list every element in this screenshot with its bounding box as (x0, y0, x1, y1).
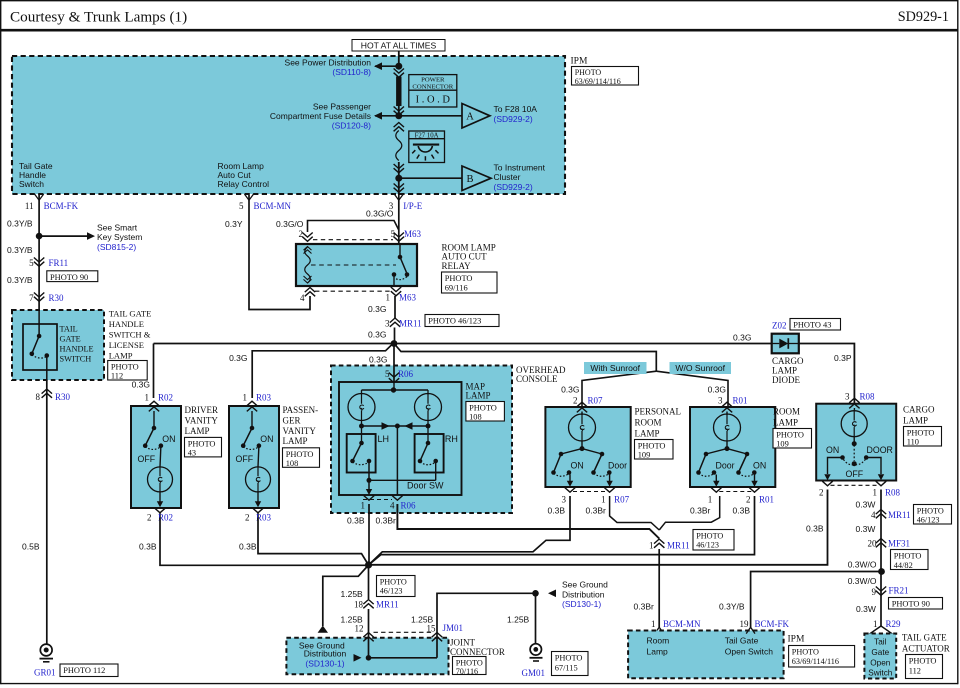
svg-text:GM01: GM01 (522, 668, 546, 678)
svg-text:PHOTO: PHOTO (907, 429, 935, 438)
svg-text:PHOTO: PHOTO (696, 531, 723, 540)
svg-text:LAMP: LAMP (903, 416, 928, 426)
svg-text:CONSOLE: CONSOLE (516, 374, 558, 384)
svg-text:1: 1 (649, 540, 654, 550)
svg-text:109: 109 (638, 451, 651, 460)
svg-text:1: 1 (145, 392, 150, 402)
svg-text:70/116: 70/116 (456, 667, 478, 676)
svg-text:1.25B: 1.25B (507, 615, 530, 625)
svg-text:R30: R30 (49, 293, 65, 303)
svg-text:2: 2 (147, 513, 152, 523)
svg-text:43: 43 (188, 449, 196, 458)
svg-text:LAMP: LAMP (283, 436, 308, 446)
svg-text:R08: R08 (860, 392, 876, 402)
svg-text:0.3G: 0.3G (229, 353, 247, 363)
svg-text:LAMP: LAMP (185, 426, 210, 436)
svg-text:PHOTO: PHOTO (792, 647, 819, 656)
svg-text:SWITCH: SWITCH (60, 355, 92, 364)
svg-text:0.3Br: 0.3Br (586, 506, 606, 516)
svg-text:R30: R30 (55, 392, 71, 402)
svg-text:R02: R02 (158, 392, 173, 402)
svg-text:PHOTO: PHOTO (469, 404, 497, 413)
svg-text:PHOTO 90: PHOTO 90 (892, 600, 930, 609)
svg-text:1: 1 (651, 619, 656, 629)
svg-text:R03: R03 (256, 392, 272, 402)
svg-text:TAIL GATE: TAIL GATE (902, 633, 947, 643)
svg-text:0.3B: 0.3B (239, 542, 257, 552)
svg-text:0.3G: 0.3G (368, 329, 386, 339)
svg-text:CONNECTOR: CONNECTOR (450, 647, 505, 657)
svg-text:BCM-MN: BCM-MN (254, 201, 292, 211)
svg-text:LICENSE: LICENSE (109, 340, 144, 350)
svg-text:(SD130-1): (SD130-1) (305, 658, 344, 668)
svg-text:0.3G: 0.3G (132, 379, 150, 389)
svg-text:3: 3 (562, 495, 567, 505)
svg-text:SWITCH &: SWITCH & (109, 330, 151, 340)
svg-text:M63: M63 (399, 293, 417, 303)
svg-text:Distribution: Distribution (304, 649, 347, 659)
svg-text:46/123: 46/123 (380, 587, 403, 596)
svg-text:See Ground: See Ground (562, 580, 608, 590)
svg-text:0.3W: 0.3W (856, 604, 876, 614)
svg-text:PHOTO: PHOTO (909, 657, 937, 666)
svg-text:To F28 10A: To F28 10A (494, 104, 538, 114)
svg-text:67/115: 67/115 (555, 664, 578, 673)
svg-text:MF31: MF31 (888, 538, 910, 548)
svg-text:TAIL GATE: TAIL GATE (109, 309, 152, 319)
svg-text:PHOTO: PHOTO (555, 654, 583, 663)
svg-text:Switch: Switch (19, 179, 44, 189)
svg-text:Gate: Gate (871, 648, 889, 657)
svg-text:MR11: MR11 (399, 318, 422, 328)
svg-text:63/69/114/116: 63/69/114/116 (575, 77, 621, 86)
svg-text:See Power Distribution: See Power Distribution (285, 58, 372, 68)
svg-text:19: 19 (740, 619, 750, 629)
svg-text:20: 20 (868, 538, 878, 548)
svg-text:ACTUATOR: ACTUATOR (902, 644, 950, 654)
svg-text:PHOTO: PHOTO (188, 440, 216, 449)
svg-text:3: 3 (845, 392, 850, 402)
svg-text:1: 1 (386, 293, 391, 303)
svg-text:DIODE: DIODE (772, 375, 800, 385)
svg-text:4: 4 (390, 500, 395, 510)
svg-text:Key System: Key System (97, 232, 142, 242)
svg-text:1.25B: 1.25B (341, 589, 364, 599)
svg-text:0.3Y/B: 0.3Y/B (7, 275, 33, 285)
svg-text:Room: Room (647, 636, 670, 646)
svg-text:LAMP: LAMP (773, 418, 798, 428)
svg-text:MR11: MR11 (667, 540, 690, 550)
svg-text:BCM-FK: BCM-FK (755, 619, 790, 629)
svg-text:4: 4 (871, 510, 876, 520)
svg-text:LH: LH (378, 434, 390, 444)
svg-text:M63: M63 (404, 229, 422, 239)
svg-text:112: 112 (909, 667, 921, 676)
svg-text:46/123: 46/123 (696, 541, 719, 550)
svg-text:Open Switch: Open Switch (725, 647, 773, 657)
svg-text:See Passenger: See Passenger (313, 101, 371, 111)
svg-text:8: 8 (36, 392, 41, 402)
svg-text:9: 9 (872, 587, 877, 597)
svg-text:Z02: Z02 (772, 320, 787, 330)
svg-text:R01: R01 (733, 395, 748, 405)
svg-text:3: 3 (718, 395, 723, 405)
svg-text:R07: R07 (614, 495, 630, 505)
svg-text:PHOTO: PHOTO (894, 552, 922, 561)
svg-text:VANITY: VANITY (185, 415, 219, 425)
svg-text:W/O Sunroof: W/O Sunroof (675, 363, 725, 373)
svg-text:PHOTO 43: PHOTO 43 (793, 321, 831, 330)
svg-text:R07: R07 (588, 395, 604, 405)
svg-text:LAMP: LAMP (635, 429, 660, 439)
svg-text:GR01: GR01 (34, 667, 56, 677)
svg-text:0.3Br: 0.3Br (634, 602, 654, 612)
svg-text:ON: ON (162, 434, 175, 444)
svg-text:0.3Y/B: 0.3Y/B (7, 219, 33, 229)
svg-text:B: B (466, 174, 473, 185)
svg-text:Courtesy & Trunk Lamps (1): Courtesy & Trunk Lamps (1) (10, 9, 187, 26)
svg-text:0.3G/O: 0.3G/O (276, 219, 304, 229)
svg-text:ON: ON (571, 460, 584, 470)
svg-text:0.3B: 0.3B (548, 506, 566, 516)
svg-text:63/69/114/116: 63/69/114/116 (792, 657, 839, 666)
svg-text:0.3B: 0.3B (806, 524, 824, 534)
svg-text:OFF: OFF (138, 454, 156, 464)
svg-text:JOINT: JOINT (450, 638, 475, 648)
svg-text:ROOM: ROOM (773, 407, 800, 417)
svg-text:PHOTO: PHOTO (111, 363, 139, 372)
svg-text:PHOTO: PHOTO (380, 577, 407, 586)
svg-text:Tail: Tail (874, 638, 886, 647)
svg-text:108: 108 (469, 413, 482, 422)
svg-text:R08: R08 (885, 488, 901, 498)
svg-text:With Sunroof: With Sunroof (590, 363, 640, 373)
svg-text:0.3B: 0.3B (139, 542, 157, 552)
svg-text:PHOTO: PHOTO (456, 658, 483, 667)
svg-text:POWER: POWER (421, 76, 445, 83)
svg-text:0.3G: 0.3G (368, 304, 386, 314)
svg-text:2: 2 (573, 395, 578, 405)
svg-text:0.3G/O: 0.3G/O (366, 209, 394, 219)
svg-text:5: 5 (239, 201, 244, 211)
svg-text:R06: R06 (398, 369, 414, 379)
svg-text:11: 11 (25, 201, 34, 211)
svg-text:Cluster: Cluster (494, 172, 521, 182)
svg-text:MR11: MR11 (888, 510, 911, 520)
svg-text:PHOTO: PHOTO (445, 274, 473, 283)
svg-text:PHOTO 46/123: PHOTO 46/123 (428, 317, 481, 326)
svg-text:2: 2 (245, 513, 250, 523)
svg-text:1: 1 (708, 495, 713, 505)
svg-text:CARGO: CARGO (772, 356, 804, 366)
svg-text:0.3B: 0.3B (347, 516, 365, 526)
svg-text:0.3W: 0.3W (856, 500, 876, 510)
svg-text:15: 15 (427, 624, 437, 634)
svg-text:5: 5 (29, 258, 34, 268)
svg-text:ON: ON (826, 445, 839, 455)
svg-text:I/P-E: I/P-E (403, 201, 423, 211)
svg-text:PHOTO: PHOTO (776, 431, 804, 440)
svg-text:CONNECTOR: CONNECTOR (412, 84, 453, 91)
svg-text:12: 12 (355, 624, 364, 634)
svg-text:Lamp: Lamp (647, 647, 669, 657)
svg-text:46/123: 46/123 (917, 515, 940, 524)
svg-text:112: 112 (111, 372, 123, 381)
svg-text:RH: RH (445, 434, 458, 444)
svg-text:44/82: 44/82 (894, 561, 913, 570)
svg-text:4: 4 (300, 293, 305, 303)
svg-text:LAMP: LAMP (109, 351, 133, 361)
svg-text:0.3G: 0.3G (369, 354, 387, 364)
svg-text:7: 7 (29, 293, 34, 303)
svg-text:(SD815-2): (SD815-2) (97, 242, 136, 252)
svg-text:GATE: GATE (60, 335, 81, 344)
svg-text:109: 109 (776, 440, 789, 449)
svg-text:(SD110-8): (SD110-8) (332, 67, 371, 77)
svg-text:2: 2 (746, 495, 751, 505)
svg-text:3: 3 (385, 318, 390, 328)
svg-text:(SD929-2): (SD929-2) (494, 114, 533, 124)
svg-text:0.3Br: 0.3Br (690, 506, 710, 516)
svg-text:HANDLE: HANDLE (109, 319, 144, 329)
svg-text:0.3B: 0.3B (733, 506, 751, 516)
svg-text:Door: Door (608, 460, 627, 470)
svg-text:18: 18 (354, 600, 364, 610)
svg-text:MR11: MR11 (376, 600, 399, 610)
svg-text:PERSONAL: PERSONAL (635, 407, 682, 417)
svg-text:F27 10A: F27 10A (415, 132, 439, 139)
svg-text:1: 1 (601, 495, 606, 505)
svg-text:0.3Y/B: 0.3Y/B (719, 602, 745, 612)
svg-text:PHOTO: PHOTO (575, 68, 602, 77)
svg-text:1: 1 (873, 619, 878, 629)
svg-text:PHOTO: PHOTO (917, 506, 944, 515)
svg-text:PHOTO: PHOTO (286, 450, 314, 459)
svg-text:LAMP: LAMP (772, 366, 797, 376)
svg-text:BCM-FK: BCM-FK (44, 201, 79, 211)
svg-text:2: 2 (299, 229, 304, 239)
svg-text:110: 110 (907, 438, 919, 447)
svg-text:1: 1 (361, 500, 366, 510)
svg-text:JM01: JM01 (443, 623, 464, 633)
svg-text:ROOM: ROOM (635, 418, 662, 428)
svg-text:DRIVER: DRIVER (185, 405, 219, 415)
svg-text:DOOR: DOOR (867, 445, 893, 455)
svg-text:0.3G: 0.3G (733, 332, 751, 342)
svg-text:108: 108 (286, 459, 299, 468)
svg-text:OFF: OFF (236, 454, 254, 464)
svg-text:(SD120-8): (SD120-8) (332, 120, 371, 130)
svg-text:R06: R06 (401, 500, 417, 510)
svg-text:A: A (466, 112, 474, 123)
svg-text:See Smart: See Smart (97, 223, 138, 233)
svg-text:FR21: FR21 (889, 586, 909, 596)
svg-text:5: 5 (391, 229, 396, 239)
svg-text:1: 1 (243, 392, 248, 402)
svg-text:0.3Y: 0.3Y (225, 219, 243, 229)
svg-text:VANITY: VANITY (283, 426, 317, 436)
svg-text:Tail Gate: Tail Gate (725, 636, 759, 646)
svg-text:R01: R01 (759, 495, 774, 505)
svg-text:0.3G: 0.3G (561, 385, 579, 395)
svg-text:IPM: IPM (571, 57, 588, 67)
svg-text:PHOTO 112: PHOTO 112 (63, 666, 105, 675)
svg-text:ON: ON (260, 434, 273, 444)
svg-text:5: 5 (385, 369, 390, 379)
svg-text:TAIL: TAIL (60, 325, 78, 334)
svg-text:Switch: Switch (868, 669, 893, 678)
svg-text:OFF: OFF (846, 469, 864, 479)
svg-text:Distribution: Distribution (562, 589, 605, 599)
svg-text:To Instrument: To Instrument (494, 162, 546, 172)
svg-text:0.5B: 0.5B (22, 542, 40, 552)
svg-text:1: 1 (873, 488, 878, 498)
svg-text:Compartment Fuse Details: Compartment Fuse Details (270, 111, 371, 121)
svg-text:69/116: 69/116 (445, 283, 468, 292)
svg-text:FR11: FR11 (49, 258, 69, 268)
svg-text:SD929-1: SD929-1 (898, 9, 949, 25)
svg-text:(SD130-1): (SD130-1) (562, 599, 601, 609)
svg-text:LAMP: LAMP (466, 391, 491, 401)
svg-text:IPM: IPM (788, 635, 805, 645)
svg-text:(SD929-2): (SD929-2) (494, 182, 533, 192)
svg-text:0.3P: 0.3P (834, 353, 852, 363)
svg-text:Open: Open (870, 658, 890, 667)
svg-text:BCM-MN: BCM-MN (663, 619, 701, 629)
svg-text:RELAY: RELAY (442, 261, 472, 271)
svg-text:0.3W: 0.3W (856, 524, 876, 534)
svg-text:Door SW: Door SW (407, 480, 444, 490)
svg-text:GER: GER (283, 415, 301, 425)
svg-text:I . O . D: I . O . D (416, 94, 451, 105)
svg-text:PHOTO 90: PHOTO 90 (50, 273, 88, 282)
svg-text:ON: ON (753, 460, 766, 470)
svg-text:0.3G: 0.3G (708, 385, 726, 395)
svg-text:0.3W/O: 0.3W/O (848, 576, 877, 586)
svg-text:HANDLE: HANDLE (60, 345, 94, 354)
svg-text:R29: R29 (886, 619, 902, 629)
svg-text:PASSEN-: PASSEN- (283, 405, 319, 415)
svg-text:0.3Y/B: 0.3Y/B (7, 245, 33, 255)
svg-text:PHOTO: PHOTO (638, 442, 666, 451)
svg-text:2: 2 (819, 487, 824, 497)
svg-text:0.3W/O: 0.3W/O (848, 560, 877, 570)
svg-text:0.3Br: 0.3Br (376, 516, 396, 526)
svg-text:CARGO: CARGO (903, 405, 935, 415)
svg-text:Relay Control: Relay Control (218, 179, 270, 189)
svg-text:Door: Door (716, 460, 735, 470)
svg-text:HOT AT ALL TIMES: HOT AT ALL TIMES (361, 40, 437, 50)
